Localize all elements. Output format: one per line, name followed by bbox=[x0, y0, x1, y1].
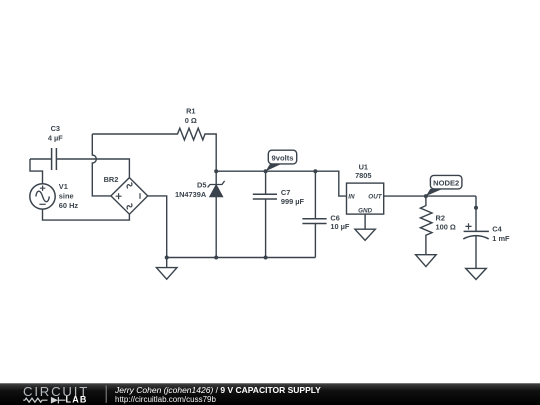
svg-text:7805: 7805 bbox=[355, 171, 371, 180]
svg-text:0 Ω: 0 Ω bbox=[185, 116, 197, 125]
svg-text:R1: R1 bbox=[186, 107, 195, 116]
svg-text:R2: R2 bbox=[436, 213, 445, 222]
svg-text:GND: GND bbox=[358, 208, 372, 215]
svg-text:NODE2: NODE2 bbox=[433, 178, 459, 187]
svg-text:V1: V1 bbox=[59, 182, 68, 191]
svg-text:BR2: BR2 bbox=[104, 175, 119, 184]
svg-text:60 Hz: 60 Hz bbox=[59, 201, 79, 210]
svg-text:4 µF: 4 µF bbox=[48, 134, 63, 143]
svg-text:http://circuitlab.com/cuss79b: http://circuitlab.com/cuss79b bbox=[115, 395, 216, 404]
svg-text:9volts: 9volts bbox=[272, 154, 294, 163]
svg-text:C3: C3 bbox=[51, 124, 60, 133]
svg-text:IN: IN bbox=[348, 194, 355, 201]
svg-text:LAB: LAB bbox=[66, 395, 88, 405]
svg-text:sine: sine bbox=[59, 192, 74, 201]
svg-text:999 µF: 999 µF bbox=[281, 197, 305, 206]
svg-text:D5: D5 bbox=[197, 180, 206, 189]
svg-text:Jerry Cohen (jcohen1426) / 9 V: Jerry Cohen (jcohen1426) / 9 V CAPACITOR… bbox=[114, 385, 321, 395]
svg-text:C4: C4 bbox=[492, 224, 502, 233]
svg-text:10 µF: 10 µF bbox=[330, 222, 350, 231]
svg-text:1 mF: 1 mF bbox=[492, 234, 510, 243]
svg-text:1N4739A: 1N4739A bbox=[175, 190, 207, 199]
svg-text:OUT: OUT bbox=[368, 193, 382, 200]
svg-text:100 Ω: 100 Ω bbox=[436, 223, 456, 232]
